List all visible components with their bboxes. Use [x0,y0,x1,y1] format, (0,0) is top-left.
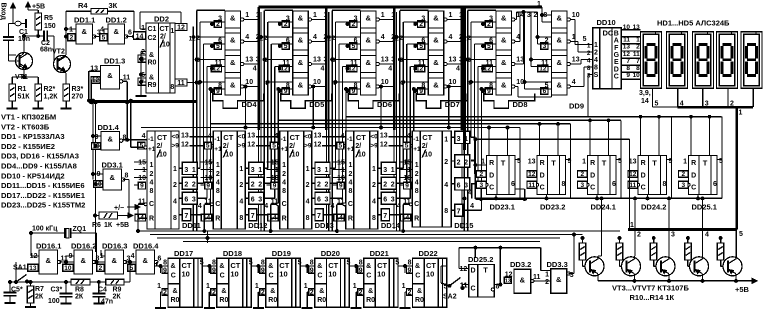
wire counter outputs to gates DD7 [389,168,413,214]
svg-text:DD24.1: DD24.1 [591,203,616,212]
svg-text:&: & [319,288,324,295]
svg-text:1: 1 [341,167,345,174]
annotation +/- arrow [114,205,140,213]
svg-text:R7: R7 [35,286,44,293]
wire DD7.4 output [447,86,462,88]
svg-text:2: 2 [594,50,598,57]
svg-text:1: 1 [459,12,463,19]
capacitor C2 [40,31,52,54]
resistor R4 [66,1,134,37]
label DD8 [513,100,528,109]
svg-text:&: & [149,75,154,82]
svg-text:8: 8 [626,65,630,72]
svg-text:R: R [489,160,494,167]
svg-text:13: 13 [29,265,37,272]
svg-text:2: 2 [192,182,196,189]
svg-text:1: 1 [192,167,196,174]
wire net 1 from DD15 to transistors [471,137,630,228]
ground under DD20 [302,266,313,308]
svg-text:4: 4 [444,182,448,189]
wire carry DD14 to next [388,137,412,147]
svg-text:4: 4 [150,180,154,187]
ground under DD18 [204,266,215,308]
svg-text:T: T [652,159,657,168]
flip-flop DD24.1 [578,120,623,211]
svg-text:5: 5 [140,143,144,150]
svg-text:4: 4 [332,80,336,87]
svg-text:R: R [691,160,696,167]
svg-text:+1: +1 [413,146,421,153]
wire DD21 input [346,260,357,268]
svg-text:&: & [114,27,120,36]
svg-text:2: 2 [150,171,154,178]
svg-text:1: 1 [391,12,395,19]
gate DD6.1 [346,11,395,28]
svg-text:1: 1 [415,162,419,169]
ground under DD2 [136,92,147,96]
svg-text:C: C [171,273,176,280]
svg-text:4: 4 [274,133,278,140]
svg-text:3: 3 [467,57,471,64]
wire DD1.1 out to DD1.2 [94,29,108,38]
svg-text:4: 4 [587,58,591,65]
svg-text:4: 4 [705,232,709,239]
wire DD7.3 output [447,63,462,65]
svg-text:4: 4 [415,180,419,187]
display HD5 [741,32,762,89]
svg-text:3: 3 [251,167,255,174]
flip-flop DD23.1 [477,128,522,212]
label DD11 [182,221,201,230]
svg-text:&: & [149,52,154,59]
wire jog under DD5 [281,93,332,108]
svg-text:4: 4 [407,133,411,140]
svg-text:4: 4 [320,66,324,73]
wire C2 to VT2 base [47,36,57,64]
svg-text:+1: +1 [281,146,289,153]
wire DD4.3 output [244,63,259,65]
wire DD14 bottom pins [336,203,347,233]
svg-text:8: 8 [562,181,566,188]
svg-text:9: 9 [405,183,409,190]
svg-text:2: 2 [258,182,262,189]
svg-text:8: 8 [372,215,376,222]
svg-text:1: 1 [306,166,310,173]
svg-text:10: 10 [424,152,432,159]
svg-text:1: 1 [282,162,286,169]
svg-text:R8: R8 [75,287,84,294]
display HD3 [693,32,714,89]
svg-text:1: 1 [636,37,640,44]
svg-text:R: R [540,160,545,167]
wire DD2 pin11 to bus [187,81,198,84]
svg-text:6: 6 [158,256,162,263]
svg-text:C: C [317,273,322,280]
ground under DD22 [400,266,411,308]
svg-text:C: C [691,185,696,192]
ground under DD17 [155,266,166,308]
svg-text:C: C [282,201,287,208]
wire upper bus pair left [89,81,197,215]
wire gate4 output drop DD5 [312,85,315,129]
svg-text:&: & [317,263,322,270]
svg-text:DD16.3: DD16.3 [102,242,127,251]
svg-text:&: & [107,71,113,80]
svg-text:13: 13 [528,159,536,166]
resistor R6 [92,212,133,229]
output boxes DD11 [179,162,202,221]
svg-text:9: 9 [339,183,343,190]
svg-text:1: 1 [449,12,453,19]
display cathode comb [639,88,753,107]
svg-text:2: 2 [359,290,363,297]
svg-text:5: 5 [405,143,409,150]
svg-text:R: R [282,216,287,223]
wire counter outputs to gates DD4 [190,168,210,214]
gate unit DD9 [538,11,584,111]
svg-text:C: C [489,185,494,192]
svg-text:1: 1 [444,137,448,144]
wire DD5.1 output [312,19,327,21]
svg-text:4: 4 [470,203,474,210]
wire VT2 collector to DD1.1 [65,11,76,52]
svg-text:>9: >9 [370,143,378,150]
svg-text:2: 2 [681,171,685,178]
gate DD4.4 [211,78,254,95]
gate DD4.1 [211,11,260,28]
svg-text:C: C [614,74,619,81]
wires into DD24.1 [589,119,610,200]
svg-text:R9: R9 [113,287,122,294]
svg-text:&: & [557,14,563,23]
svg-text:&: & [557,58,563,67]
gate DD7.3 [414,56,463,73]
svg-text:VT2 - КТ603Б: VT2 - КТ603Б [1,122,50,131]
svg-text:1: 1 [69,27,73,34]
svg-text:4: 4 [239,199,243,206]
svg-text:13: 13 [633,24,641,31]
svg-text:4: 4 [340,133,344,140]
gate column outline DD6 [361,11,377,95]
svg-text:7: 7 [626,58,630,65]
svg-text:R0: R0 [366,297,375,304]
svg-text:11: 11 [123,75,131,82]
gate DD8.3 [482,56,525,73]
crystal ZQ1 [31,226,98,264]
input terminal Вход [0,3,26,29]
wire DD18 input [200,260,211,268]
svg-text:4: 4 [449,34,453,41]
svg-text:&: & [556,275,562,284]
svg-text:9: 9 [310,268,314,275]
svg-text:2/: 2/ [223,143,229,150]
svg-text:&: & [501,14,507,23]
svg-text:2/: 2/ [289,143,295,150]
svg-text:4: 4 [397,203,401,210]
svg-text:3: 3 [527,12,531,19]
svg-text:10: 10 [225,152,233,159]
svg-text:2: 2 [216,171,220,178]
svg-text:1: 1 [313,12,317,19]
svg-text:4: 4 [572,79,576,86]
svg-text:13: 13 [245,57,253,64]
svg-text:3: 3 [383,167,387,174]
counter DD21 [353,249,398,307]
svg-text:C: C [149,201,154,208]
svg-text:8: 8 [306,215,310,222]
resistor R5 [28,10,56,30]
svg-text:15: 15 [403,160,411,167]
svg-text:R: R [348,216,353,223]
wire gate4 output drop DD6 [380,85,383,129]
svg-text:DD13: DD13 [315,221,334,230]
svg-text:2: 2 [332,35,336,42]
svg-text:&: & [501,58,507,67]
svg-text:11: 11 [177,80,185,87]
svg-text:2: 2 [239,182,243,189]
svg-text:DD1.2: DD1.2 [106,16,127,25]
counter DD12 [200,131,255,229]
svg-text:DD15: DD15 [454,221,473,230]
thick net-1 right [628,107,743,257]
svg-text:8: 8 [587,65,591,72]
svg-text:&: & [415,263,420,270]
gate column outline DD5 [293,11,309,95]
wire DD8 outputs up to nets [515,11,552,97]
svg-text:4: 4 [348,180,352,187]
gate DD7.1 [414,11,463,28]
svg-text:8: 8 [415,188,419,195]
svg-text:2К: 2К [35,294,44,301]
svg-text:4: 4 [388,66,392,73]
svg-text:S: S [594,72,599,79]
svg-text:4: 4 [253,66,257,73]
svg-text:C: C [414,201,419,208]
svg-text:2: 2 [399,35,403,42]
wire DD1.3 inputs [88,71,101,104]
gate DD8.1 [482,11,521,28]
svg-text:C: C [220,273,225,280]
svg-text:&: & [230,81,236,90]
svg-text:1: 1 [594,42,598,49]
svg-text:2: 2 [415,171,419,178]
svg-text:C: C [470,286,475,293]
gate DD7.2 [414,33,463,50]
wire DD12 bottom pins [203,203,213,233]
svg-text:4: 4 [264,203,268,210]
svg-text:10: 10 [159,152,167,159]
wire bus to DD11 inputs [131,124,147,149]
wire input to C1 [9,14,16,37]
svg-text:R: R [215,216,220,223]
wire DD22 input [395,260,406,268]
label DD5 [309,100,324,109]
svg-text:51К: 51К [18,94,31,101]
svg-text:R3*: R3* [72,86,84,93]
svg-text:&: & [298,58,304,67]
wire DD16.4 out to DD17 [155,262,162,267]
svg-text:E: E [614,59,619,66]
svg-text:DD1.4: DD1.4 [98,123,120,132]
svg-text:CT: CT [290,133,300,142]
svg-text:&: & [433,81,439,90]
svg-text:&: & [82,27,88,36]
label DD7 [445,100,460,109]
resistor R14 [717,237,724,267]
svg-text:10: 10 [182,270,190,279]
svg-text:15: 15 [337,160,345,167]
svg-text:DD4...DD9 - К155ЛА8: DD4...DD9 - К155ЛА8 [1,162,77,171]
svg-text:2: 2 [457,159,461,166]
thick separator right of DD6 [388,7,394,229]
wire DD7.2 output [447,41,462,43]
svg-text:12: 12 [623,51,631,58]
svg-text:2: 2 [310,290,314,297]
svg-text:2: 2 [348,171,352,178]
display HD4 [717,32,738,89]
svg-text:4: 4 [198,203,202,210]
svg-text:VT1 - КП302БМ: VT1 - КП302БМ [1,113,56,122]
svg-text:4: 4 [282,180,286,187]
svg-text:&: & [366,81,372,90]
svg-text:R0: R0 [148,60,157,67]
svg-text:VT2: VT2 [52,49,65,56]
svg-text:1: 1 [587,43,591,50]
wire bus under counters [140,231,620,242]
svg-text:-1: -1 [148,136,154,143]
svg-text:4: 4 [467,80,471,87]
bottom RC network wire [9,281,130,284]
gate DD7.4 [414,78,457,95]
svg-text:R0: R0 [415,297,424,304]
svg-text:15: 15 [205,160,213,167]
svg-text:3: 3 [459,57,463,64]
wire C1 to VT1 gate [9,40,17,61]
svg-text:DD2 - К155ИЕ2: DD2 - К155ИЕ2 [1,142,55,151]
svg-text:4: 4 [208,133,212,140]
capacitor C5 [4,282,23,303]
wire crystal feedback [16,232,39,282]
svg-text:13: 13 [381,57,389,64]
gate DD3.1 [94,161,129,191]
svg-text:2: 2 [580,171,584,178]
transistor VT1 [15,36,33,81]
gate unit frame DD5 [256,10,292,231]
gate DD5.4 [278,78,321,95]
svg-text:CT: CT [422,133,432,142]
svg-text:R2*: R2* [44,86,56,93]
svg-text:DD22: DD22 [419,249,438,258]
svg-text:10: 10 [205,175,213,182]
svg-text:10: 10 [358,152,366,159]
svg-text:DD3.3: DD3.3 [547,260,568,269]
svg-text:1К: 1К [104,222,113,229]
svg-text:&: & [270,288,275,295]
gate DD4.3 [211,56,260,73]
svg-text:B: B [614,30,619,37]
svg-text:2: 2 [261,290,265,297]
svg-text:1: 1 [255,283,259,290]
svg-text:7: 7 [383,213,387,220]
svg-text:2: 2 [479,171,483,178]
output boxes DD13 [312,162,335,221]
svg-text:4: 4 [196,80,200,87]
svg-text:10: 10 [403,175,411,182]
svg-text:13: 13 [505,279,512,285]
svg-text:100: 100 [48,298,60,305]
svg-text:A: A [614,38,619,45]
output boxes DD12 [245,162,268,221]
svg-text:12: 12 [177,25,185,32]
wire DD19 input [249,260,260,268]
svg-text:&: & [366,58,372,67]
svg-text:2: 2 [636,44,640,51]
svg-text:>9: >9 [304,143,312,150]
gate DD1.3 [90,57,130,90]
wire DD5.4 output [312,86,327,88]
svg-text:C: C [590,185,595,192]
wire DD6.1 output [379,19,394,21]
svg-text:1: 1 [256,12,260,19]
svg-text:T: T [602,159,607,168]
wire DD4.1 output [244,19,259,21]
svg-text:13: 13 [314,133,322,140]
svg-text:3: 3 [258,197,262,204]
svg-text:3: 3 [391,57,395,64]
svg-text:R4: R4 [78,1,88,10]
gate DD5.3 [278,56,327,73]
svg-text:C: C [215,201,220,208]
wires into DD24.2 [639,115,660,200]
gate DD1.4 [92,123,127,150]
svg-text:2: 2 [163,290,167,297]
svg-text:Вход: Вход [0,3,7,21]
svg-text:2/: 2/ [157,143,163,150]
capacitor C1 [3,29,30,43]
svg-text:C: C [269,273,274,280]
wire counter outputs to gates DD6 [323,168,346,214]
svg-text:10: 10 [230,270,238,279]
svg-text:D: D [590,173,595,180]
svg-text:R10...R14 1К: R10...R14 1К [630,293,675,302]
svg-text:270: 270 [72,94,84,101]
svg-text:9: 9 [626,72,630,79]
svg-text:C3*: C3* [51,287,63,294]
switch SA1 [13,265,28,284]
svg-text:DD2: DD2 [154,15,169,24]
svg-text:DD1 - КР1533ЛА3: DD1 - КР1533ЛА3 [1,132,65,141]
counter DD19 [255,249,300,307]
svg-text:1: 1 [582,159,586,166]
svg-text:2/: 2/ [355,143,361,150]
svg-text:4: 4 [245,34,249,41]
svg-text:11: 11 [623,37,630,44]
svg-text:+/−: +/− [114,205,124,212]
wire DD9 outputs to DD10 [571,20,593,118]
svg-text:1: 1 [381,12,385,19]
svg-text:CT: CT [157,133,167,142]
svg-text:SA2: SA2 [443,294,457,301]
output boxes DD15 [451,131,474,216]
svg-text:10: 10 [337,175,345,182]
svg-text:2: 2 [391,182,395,189]
svg-text:150: 150 [44,23,56,30]
ground under R3 [61,105,72,109]
svg-text:&: & [298,81,304,90]
svg-text:4: 4 [264,80,268,87]
svg-text:10: 10 [162,42,170,49]
ground under R2 [33,105,44,109]
